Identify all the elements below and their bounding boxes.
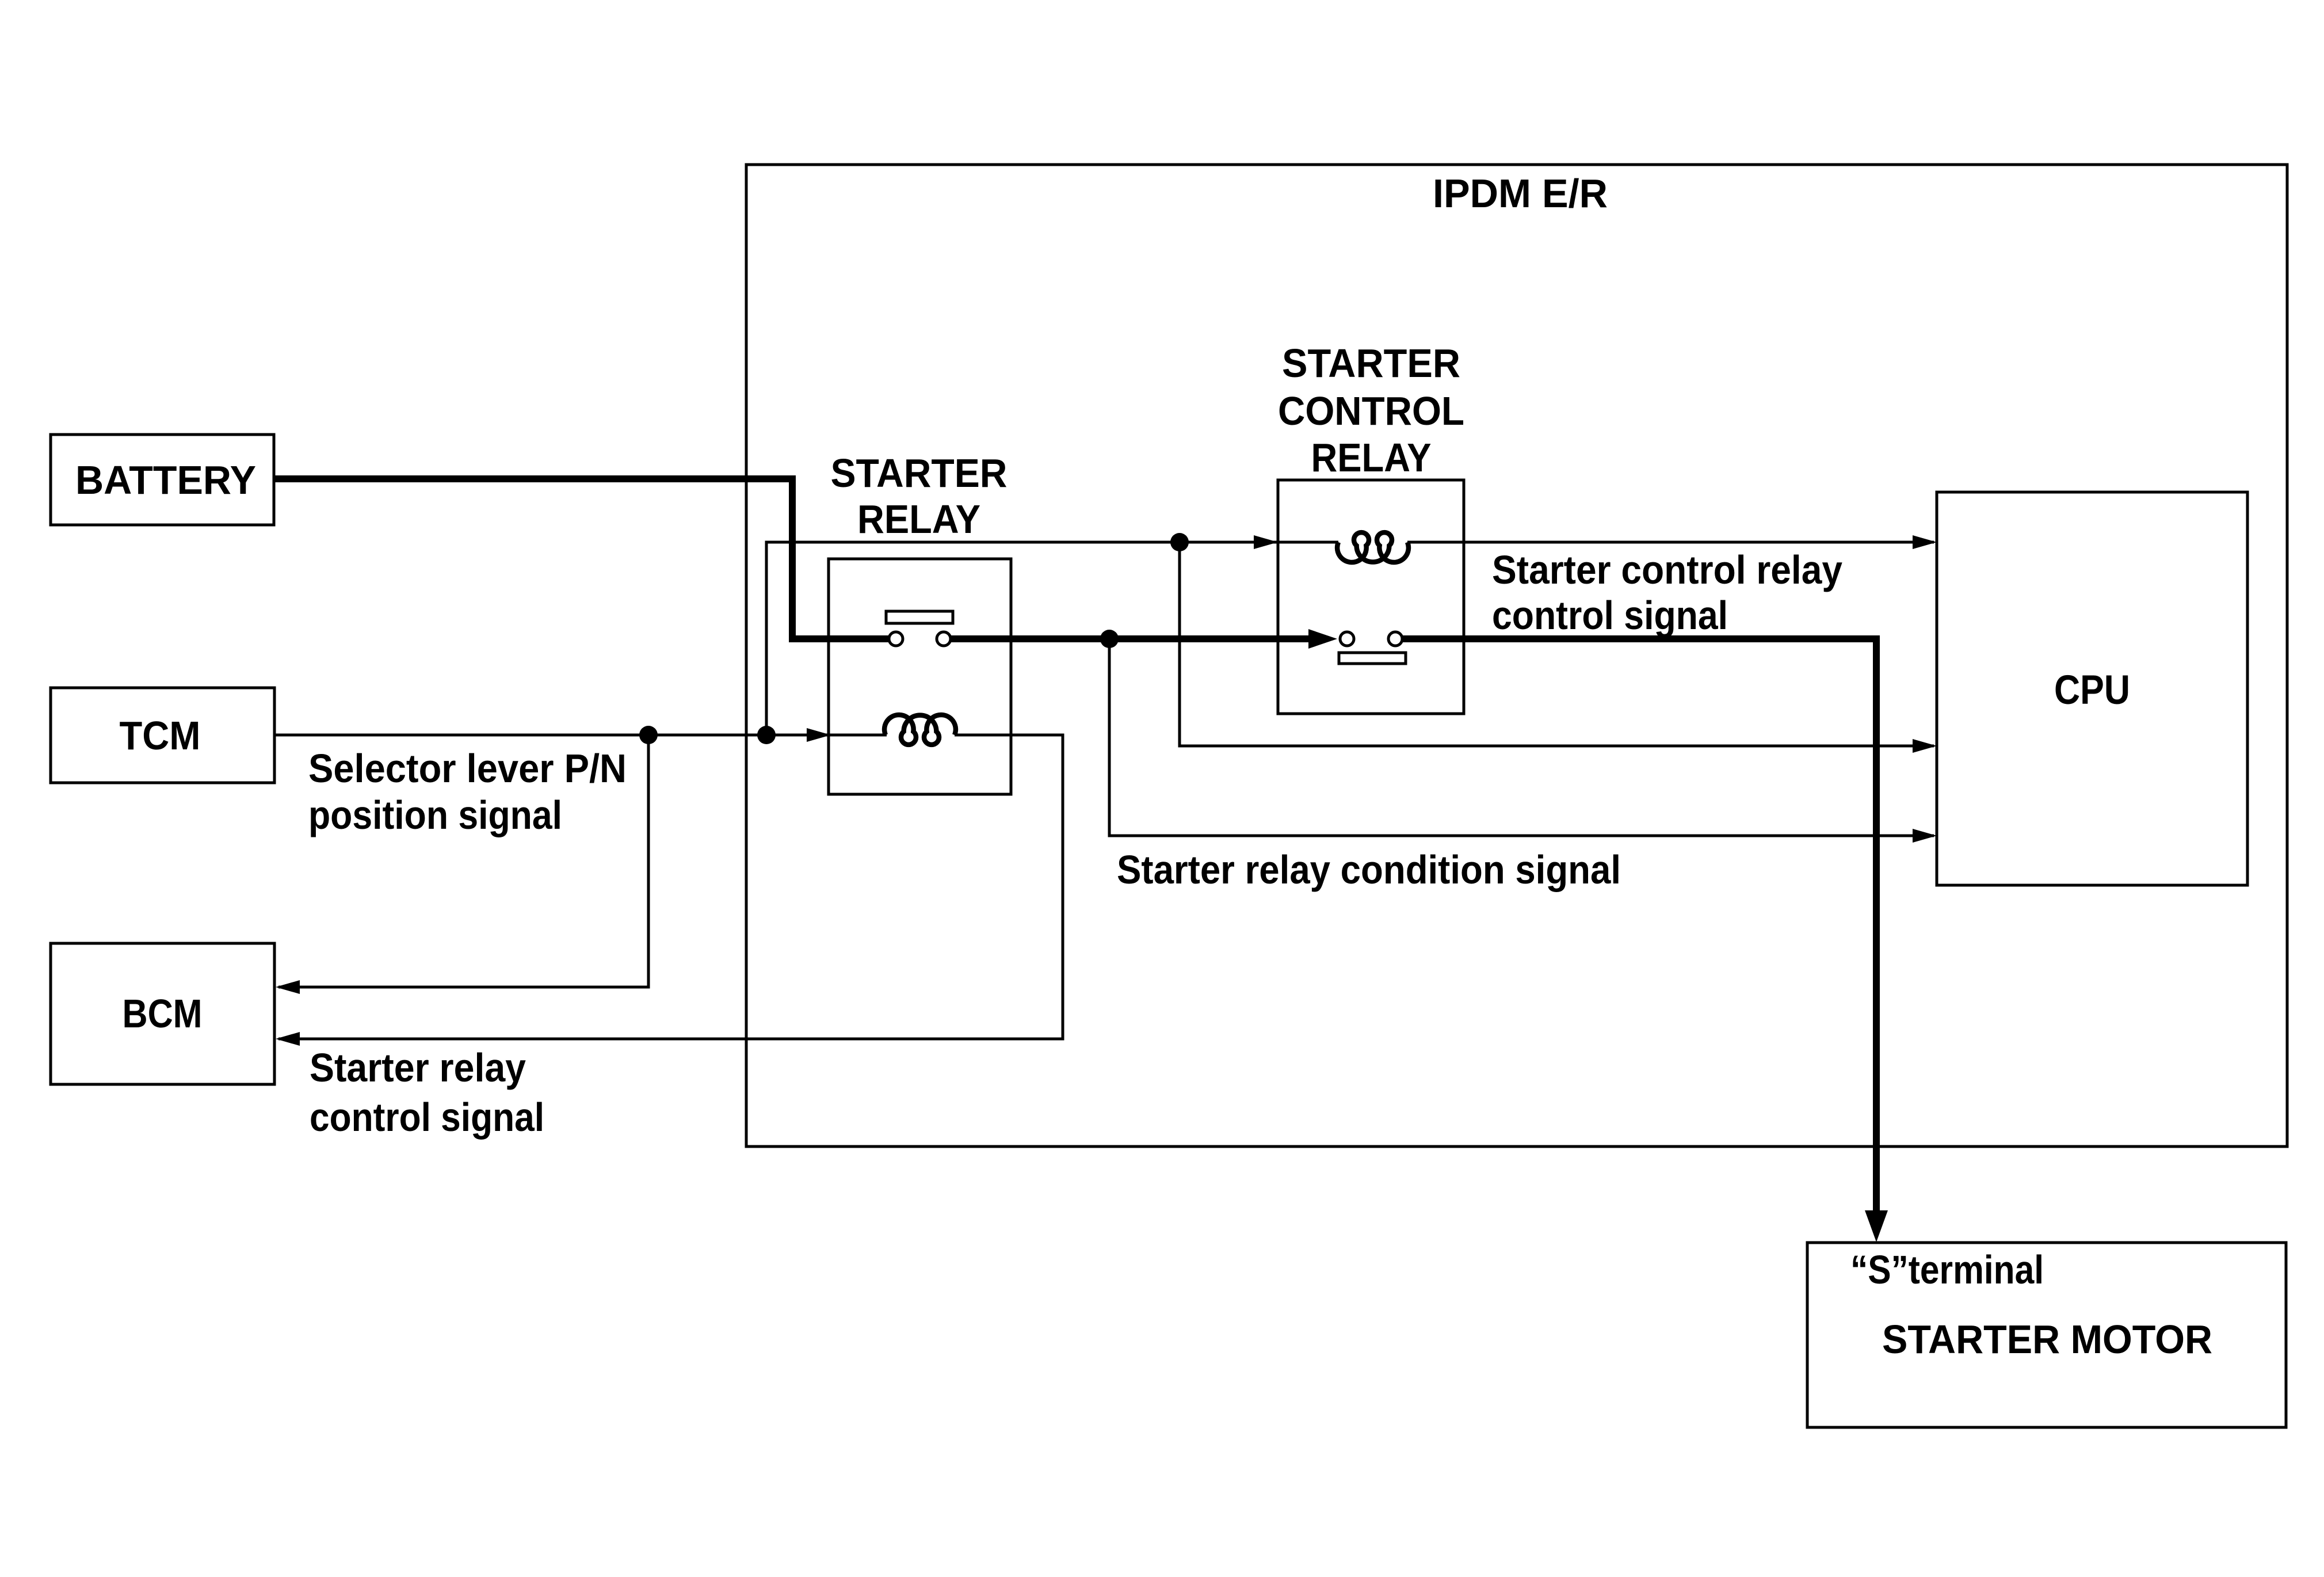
wire starter relay coil lead-in [831, 734, 887, 737]
wire to CPU feedback (from control relay drive node) [1180, 542, 1934, 746]
svg-text:CPU: CPU [2054, 668, 2130, 713]
junction node on TCM wire (control relay branch) [757, 726, 776, 744]
svg-text:control signal: control signal [1492, 593, 1728, 638]
svg-text:IPDM E/R: IPDM E/R [1433, 171, 1608, 216]
wire starter relay condition signal to CPU [1109, 639, 1934, 836]
svg-text:BATTERY: BATTERY [75, 458, 256, 502]
relay K2 movable contact bar [1339, 653, 1406, 664]
relay K1 left contact [889, 632, 903, 646]
module box STARTER MOTOR [1807, 1243, 2286, 1427]
svg-text:“S”terminal: “S”terminal [1850, 1247, 2044, 1292]
relay K1 movable contact bar [886, 611, 953, 623]
wire starter relay output (thick) [951, 635, 1310, 642]
wire branch to BCM (selector position) [278, 735, 648, 987]
junction node on starter relay output [1100, 630, 1119, 648]
svg-text:Starter relay: Starter relay [310, 1045, 526, 1090]
svg-text:Starter control relay: Starter control relay [1492, 547, 1842, 592]
svg-text:position signal: position signal [308, 793, 562, 837]
arrowhead into BCM lower [276, 1032, 300, 1046]
enclosure IPDM E/R [746, 165, 2287, 1146]
svg-text:TCM: TCM [120, 713, 201, 758]
thick arrowhead into starter control relay contact [1308, 629, 1337, 649]
svg-text:RELAY: RELAY [857, 497, 980, 542]
wire control relay coil to CPU [1407, 541, 1934, 544]
relay K2 coil [1337, 532, 1409, 562]
module box BCM [51, 943, 274, 1084]
svg-text:Starter relay condition signal: Starter relay condition signal [1117, 847, 1621, 892]
relay K2 left contact [1340, 632, 1354, 646]
arrowhead into CPU (middle) [1913, 739, 1937, 753]
svg-text:CONTROL: CONTROL [1278, 388, 1464, 433]
wire starter relay coil return to BCM [278, 735, 1063, 1039]
module box TCM [51, 688, 274, 783]
arrowhead into CPU (starter control relay control signal) [1913, 535, 1937, 549]
relay K1 right contact [937, 632, 951, 646]
svg-text:BCM: BCM [123, 991, 203, 1036]
arrowhead into starter control relay coil [1254, 535, 1278, 549]
wire battery supply (thick) [274, 479, 889, 639]
relay K2 right contact [1388, 632, 1402, 646]
thick arrowhead into starter motor S terminal [1865, 1210, 1888, 1242]
module box CPU [1937, 492, 2247, 885]
relay K2 STARTER CONTROL RELAY box [1278, 480, 1464, 714]
relay K1 STARTER RELAY box [829, 559, 1011, 794]
svg-text:STARTER: STARTER [831, 451, 1008, 496]
arrowhead into BCM upper [276, 980, 300, 994]
arrowhead into CPU (starter relay condition signal) [1913, 829, 1937, 843]
wire TCM selector lever P/N position signal [274, 734, 832, 737]
svg-text:control signal: control signal [310, 1095, 544, 1140]
svg-text:Selector lever P/N: Selector lever P/N [308, 746, 627, 791]
junction node on TCM wire (BCM branch) [639, 726, 658, 744]
wire starter control relay drive (vertical riser) [766, 542, 1279, 735]
wire starter motor drive (thick) [1403, 639, 1876, 1214]
wire control relay coil lead-in [1278, 541, 1338, 544]
svg-text:STARTER MOTOR: STARTER MOTOR [1882, 1317, 2212, 1362]
junction node on control relay drive wire [1170, 533, 1189, 551]
relay K1 coil [884, 715, 956, 745]
svg-text:STARTER: STARTER [1282, 341, 1460, 386]
svg-text:RELAY: RELAY [1311, 435, 1432, 480]
module box BATTERY [51, 435, 274, 525]
arrowhead into starter relay coil [807, 728, 831, 742]
